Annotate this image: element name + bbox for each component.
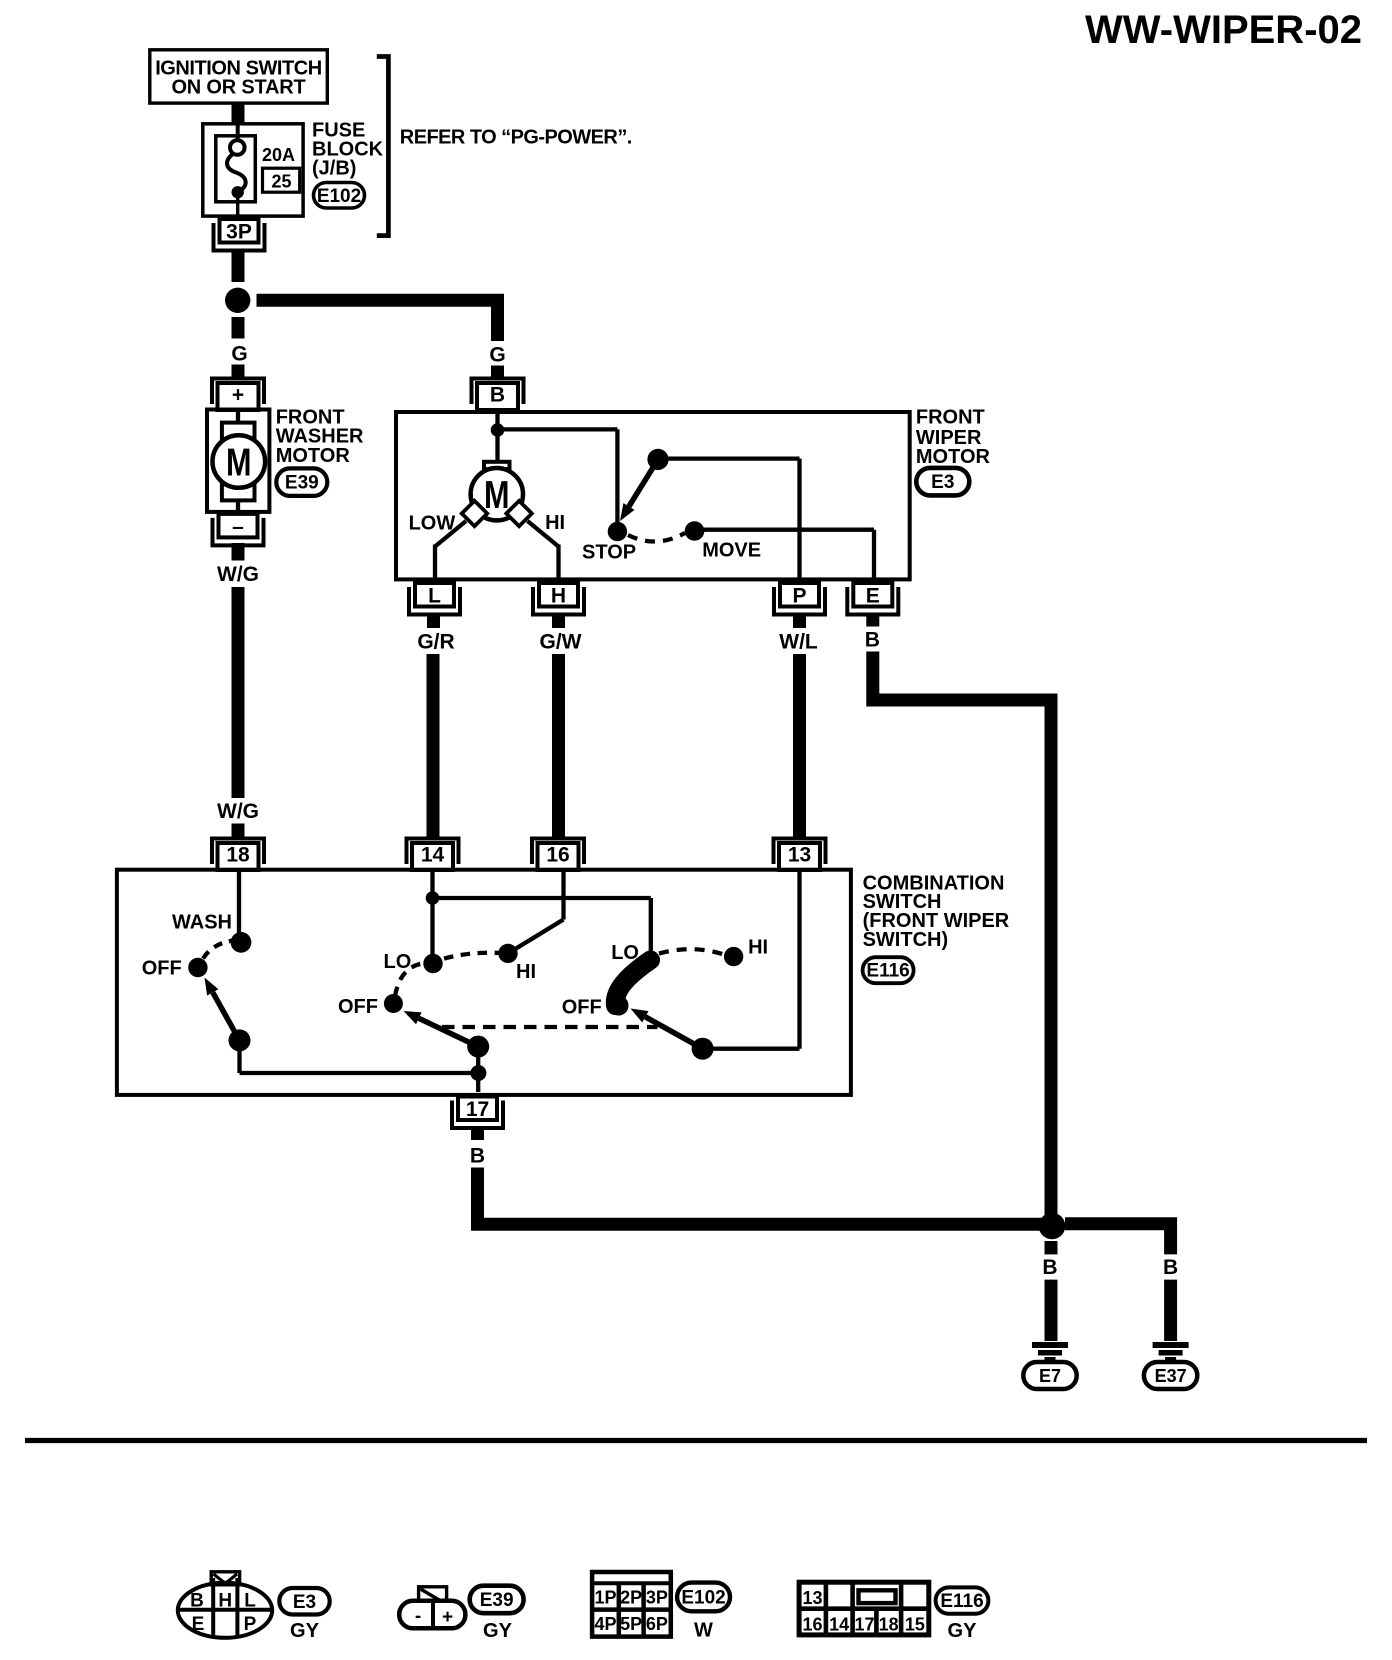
wire wash pivot to node [240,1071,479,1075]
wire HI contact diagonal to 16 [508,920,564,954]
terminal L [415,583,454,607]
motor hi tab [506,501,531,526]
svg-text:E102: E102 [317,186,361,207]
svg-text:2P: 2P [620,1588,642,1608]
svg-text:STOP: STOP [582,542,636,564]
svg-text:B: B [190,1591,204,1612]
svg-text:LOW: LOW [409,513,456,535]
svg-text:OFF: OFF [562,997,602,1019]
fuse 25 inner box [216,136,256,202]
washer motor - terminal [219,514,258,538]
wire ignition to fuse block [232,103,245,124]
motor low tab [462,501,487,526]
wire E stub [866,615,879,627]
svg-text:OFF: OFF [338,996,378,1018]
wire to ground E37 [1065,1224,1171,1255]
terminal 18 [218,843,259,870]
terminal 17 [458,1097,497,1121]
wire node to motor [495,430,499,460]
wire W/L run [793,654,806,839]
svg-text:1P: 1P [594,1588,616,1608]
wire B from 17 to ground junction [478,1168,1046,1225]
svg-text:OFF: OFF [142,958,182,980]
wire 14 node across [433,896,651,900]
wire down to STOP contact [615,429,619,525]
svg-text:G: G [489,344,505,367]
fuse block J/B box [203,124,303,216]
MOVE contact [685,521,705,541]
connector ref E116 [863,957,914,983]
svg-text:W/G: W/G [217,563,259,586]
svg-text:B: B [1163,1256,1178,1279]
wiper arm pivot mid [467,1036,489,1058]
connector 3P [220,219,259,243]
svg-text:WW-WIPER-02: WW-WIPER-02 [1085,8,1362,52]
legend ref E116 [936,1587,989,1613]
svg-text:E37: E37 [1155,1366,1187,1386]
terminal H [539,583,578,607]
terminal 16 [538,843,579,870]
STOP contact [608,522,627,541]
svg-text:E: E [866,585,880,608]
wiper HI contact [498,944,517,963]
wire G to wiper B [491,366,504,380]
wiper LO contact [423,954,442,973]
dashed arc LO-HI right [659,949,727,955]
combination switch box [117,870,851,1095]
wire pivot down [237,1040,241,1073]
bold LO arm right switch [615,960,650,1006]
svg-text:G/R: G/R [417,631,454,654]
wire L stub [427,615,440,628]
front wiper motor box [396,412,910,579]
washer motor M [213,435,266,488]
svg-text:HI: HI [748,937,768,959]
svg-text:6P: 6P [646,1614,668,1634]
svg-text:H: H [551,585,566,608]
wire hi tab to H [528,521,559,547]
wire B into motor [495,410,499,430]
svg-text:MOVE: MOVE [702,540,761,562]
svg-text:LO: LO [384,951,412,973]
svg-text:3P: 3P [646,1588,668,1608]
wiper switch arm arrow mid [419,1018,478,1046]
separator line [25,1438,1367,1443]
svg-text:ON OR START: ON OR START [171,76,305,98]
wiper OFF contact right [609,996,629,1016]
junction dot B node [491,423,505,437]
wire feed to front wiper motor [257,294,505,307]
terminal 14 [412,843,453,870]
svg-text:E3: E3 [931,472,954,493]
svg-text:13: 13 [788,844,811,867]
wire 17 stub [471,1126,484,1140]
svg-text:18: 18 [879,1614,899,1634]
svg-text:B: B [490,384,505,407]
svg-text:MOTOR: MOTOR [276,445,351,467]
svg-text:17: 17 [854,1614,874,1634]
svg-text:SWITCH): SWITCH) [863,929,949,951]
washer motor + terminal [218,383,259,410]
svg-text:–: – [232,515,244,538]
svg-text:14: 14 [829,1614,849,1634]
svg-text:14: 14 [421,844,445,867]
svg-text:+: + [232,384,244,407]
svg-text:E116: E116 [866,961,909,982]
connector ref E39 [276,468,327,496]
svg-text:W/L: W/L [779,631,818,654]
junction dot main feed [225,288,250,313]
svg-text:3P: 3P [226,221,252,244]
park switch arm arrow [629,459,658,506]
svg-text:E39: E39 [480,1590,514,1611]
wire 3P down [232,249,245,282]
wire W/G long run [232,587,245,798]
svg-text:HI: HI [545,512,565,534]
wire down to B [491,300,504,341]
junction dot wash/wiper [470,1065,486,1081]
svg-text:G: G [231,343,247,366]
wire stub below junction [1045,1241,1058,1254]
svg-text:4P: 4P [594,1614,616,1634]
svg-text:L: L [244,1591,256,1612]
legend connector E102 face [592,1572,671,1637]
svg-text:M: M [226,442,252,485]
ignition switch box [150,50,327,103]
wire node to STOP contact [498,427,618,431]
junction dot 14 node [426,891,440,905]
wire to ground E37 lower [1164,1280,1177,1341]
svg-text:5P: 5P [620,1614,642,1634]
wire down to right LO contact [649,898,653,955]
wiper arm pivot right [692,1038,714,1060]
wiper HI contact right [724,947,743,966]
svg-text:B: B [470,1145,485,1168]
wire G/W run [552,654,565,839]
svg-text:REFER TO “PG-POWER”.: REFER TO “PG-POWER”. [400,127,632,149]
terminal E [853,583,892,607]
svg-text:W/G: W/G [217,800,259,823]
svg-text:H: H [218,1591,232,1612]
svg-text:P: P [792,585,806,608]
wire G/R run [427,654,440,839]
ground junction dot [1039,1213,1066,1240]
svg-text:B: B [1042,1256,1057,1279]
svg-text:18: 18 [226,844,250,867]
legend ref E3 [279,1588,329,1615]
washer arm pivot contact [229,1029,251,1051]
wire to ground E7 [1045,1280,1058,1341]
svg-text:E: E [192,1614,205,1635]
wire 18 to WASH contact [237,870,241,936]
wire W/G to terminal 18 [232,824,245,839]
wire B from E to ground junction [873,652,1051,1221]
svg-text:MOTOR: MOTOR [916,446,991,468]
front washer motor housing [207,410,269,512]
svg-text:FRONT: FRONT [916,406,985,428]
wire - to W/G label [232,543,245,561]
dashed arc STOP to MOVE [628,533,685,542]
svg-text:E7: E7 [1039,1366,1061,1386]
svg-text:W: W [694,1620,713,1642]
wire H stub [552,615,565,628]
wiper OFF contact [384,994,403,1013]
washer switch arm arrow [213,992,240,1040]
svg-text:E3: E3 [293,1592,316,1613]
svg-text:GY: GY [483,1620,513,1642]
legend ref E102 [677,1583,730,1612]
ground E7 [1032,1342,1068,1348]
ground E37 [1153,1342,1189,1348]
connector ref E3 [916,468,969,496]
wire pivot to P [658,456,800,460]
svg-text:E116: E116 [940,1591,983,1612]
wire pivot right to 13 [703,1047,800,1051]
legend ref E39 [470,1586,524,1614]
wire P stub [793,615,806,628]
legend connector E3 face [178,1583,272,1638]
svg-text:+: + [442,1607,453,1628]
svg-text:GY: GY [948,1620,978,1642]
svg-text:LO: LO [611,942,639,964]
wiper switch arm arrow right [645,1017,702,1049]
svg-text:20A: 20A [262,145,295,165]
wire MOVE to E [695,528,875,532]
svg-text:M: M [484,474,510,517]
fuse number 25 box [263,168,300,192]
washer OFF contact [188,958,207,977]
wire stub above left G label [232,317,245,339]
svg-text:(J/B): (J/B) [312,158,356,180]
wiper park pivot contact [647,449,668,470]
terminal 13 [779,843,820,870]
bracket REFER TO PG-POWER [377,57,389,236]
wire 14 to LO contact [430,870,434,955]
svg-text:HI: HI [516,961,536,983]
WASH contact [231,932,252,953]
svg-text:13: 13 [802,1588,822,1608]
dashed arc OFF-LO-HI mid [395,953,504,996]
svg-text:-: - [415,1606,421,1627]
legend connector E39 face [399,1601,465,1629]
svg-text:16: 16 [546,844,569,867]
svg-text:E102: E102 [681,1587,725,1608]
dashed mechanical link [442,1025,658,1029]
wire pivot to 17 [476,1047,480,1092]
connector ref E102 [314,183,365,209]
svg-text:15: 15 [905,1614,925,1634]
wire low tab to L [435,521,466,547]
svg-text:25: 25 [271,172,291,192]
wire G to washer + [232,365,245,380]
wiper motor B terminal [477,383,518,410]
svg-text:P: P [244,1614,257,1635]
svg-text:B: B [865,629,880,652]
svg-text:16: 16 [802,1614,822,1634]
legend connector E116 face [799,1582,929,1635]
svg-text:17: 17 [466,1098,489,1121]
svg-text:E39: E39 [285,473,319,494]
svg-text:GY: GY [290,1620,320,1642]
wiper motor M [484,462,510,469]
svg-text:WASH: WASH [172,912,232,934]
terminal P [780,583,819,607]
fuse element 20A [236,122,240,141]
dashed arc OFF to WASH [203,941,233,959]
svg-text:L: L [428,585,441,608]
svg-text:G/W: G/W [540,631,582,654]
